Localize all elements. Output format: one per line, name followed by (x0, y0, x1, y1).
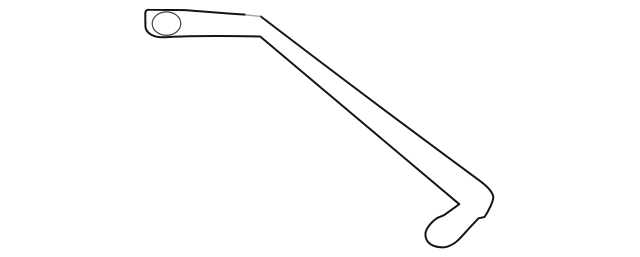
light patch on top edge near bend (246, 15, 261, 17)
eyelet circle (152, 12, 181, 35)
arm body outline (145, 10, 493, 248)
